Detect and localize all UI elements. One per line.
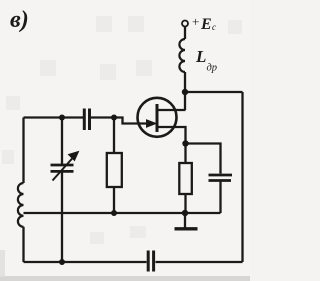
wire tap horizontal (coil tap to ground rail) xyxy=(24,212,221,214)
capacitor C4 (feedback/coupling capacitor in bottom wire) xyxy=(148,251,153,272)
resistor R2 (source resistor) xyxy=(179,163,192,194)
wire var-cap branch bottom xyxy=(61,172,63,263)
wire top horizontal (gate net, left section) xyxy=(24,116,84,118)
svg-text:в): в) xyxy=(10,7,29,33)
svg-text:+: + xyxy=(192,14,199,29)
node drain junction dot xyxy=(182,89,188,95)
capacitor C2 arrow xyxy=(53,157,74,181)
wire R1 to tap line xyxy=(113,187,115,213)
resistor R1 (gate leak resistor) xyxy=(107,153,122,187)
node var-cap top junction dot xyxy=(59,115,65,121)
svg-text:с: с xyxy=(212,22,216,32)
wire left vertical (below coil) xyxy=(22,227,24,262)
node source junction dot xyxy=(182,140,188,146)
gate arrow of transistor VT1 xyxy=(147,120,157,127)
terminal +Ec (supply terminal circle) xyxy=(182,21,188,27)
node var-cap bottom junction dot xyxy=(59,259,65,265)
capacitor C1 (gate coupling capacitor) xyxy=(84,109,89,131)
wire choke to drain xyxy=(184,72,186,110)
svg-text:L: L xyxy=(195,47,206,66)
wire bottom horizontal left of C4 xyxy=(24,261,147,263)
wire source node to C3 xyxy=(186,144,221,174)
wire drain lead xyxy=(157,109,186,111)
inductor L1 (tank coil, 4 turns) xyxy=(18,183,24,227)
wire node A down to R1 xyxy=(113,118,115,154)
node A (gate node junction dot) xyxy=(111,115,117,121)
wire C3 bottom to tap line xyxy=(219,182,221,214)
inductor Ldr (RF choke, 3 turns) xyxy=(179,39,185,72)
wire node A to gate (jogged) xyxy=(114,118,148,124)
scan artifact bottom band (decorative) xyxy=(0,276,250,281)
svg-text:др: др xyxy=(207,63,218,74)
transistor VT1 (JFET, circle body) xyxy=(138,98,177,137)
wire from C1 to node A xyxy=(91,116,114,118)
capacitor C2 (variable tuning capacitor) xyxy=(51,165,74,171)
node ground junction dot xyxy=(182,210,188,216)
wire source node down to R2 xyxy=(184,144,186,164)
capacitor C3 (source bypass capacitor) xyxy=(209,175,233,181)
wire terminal to choke xyxy=(184,27,186,40)
svg-text:E: E xyxy=(200,16,212,33)
wire bottom horizontal right of C4 xyxy=(156,261,243,263)
wire var-cap branch top xyxy=(61,118,63,165)
wire left vertical (top) xyxy=(22,118,24,184)
wire right edge vertical xyxy=(241,92,243,262)
ground xyxy=(184,213,186,228)
wire R2 to ground node xyxy=(184,194,186,213)
node R1 bottom junction dot xyxy=(111,210,117,216)
wire top right horizontal (drain node to right edge) xyxy=(185,91,243,93)
transistor VT1 channel line xyxy=(156,104,159,132)
wire source lead xyxy=(157,127,186,144)
